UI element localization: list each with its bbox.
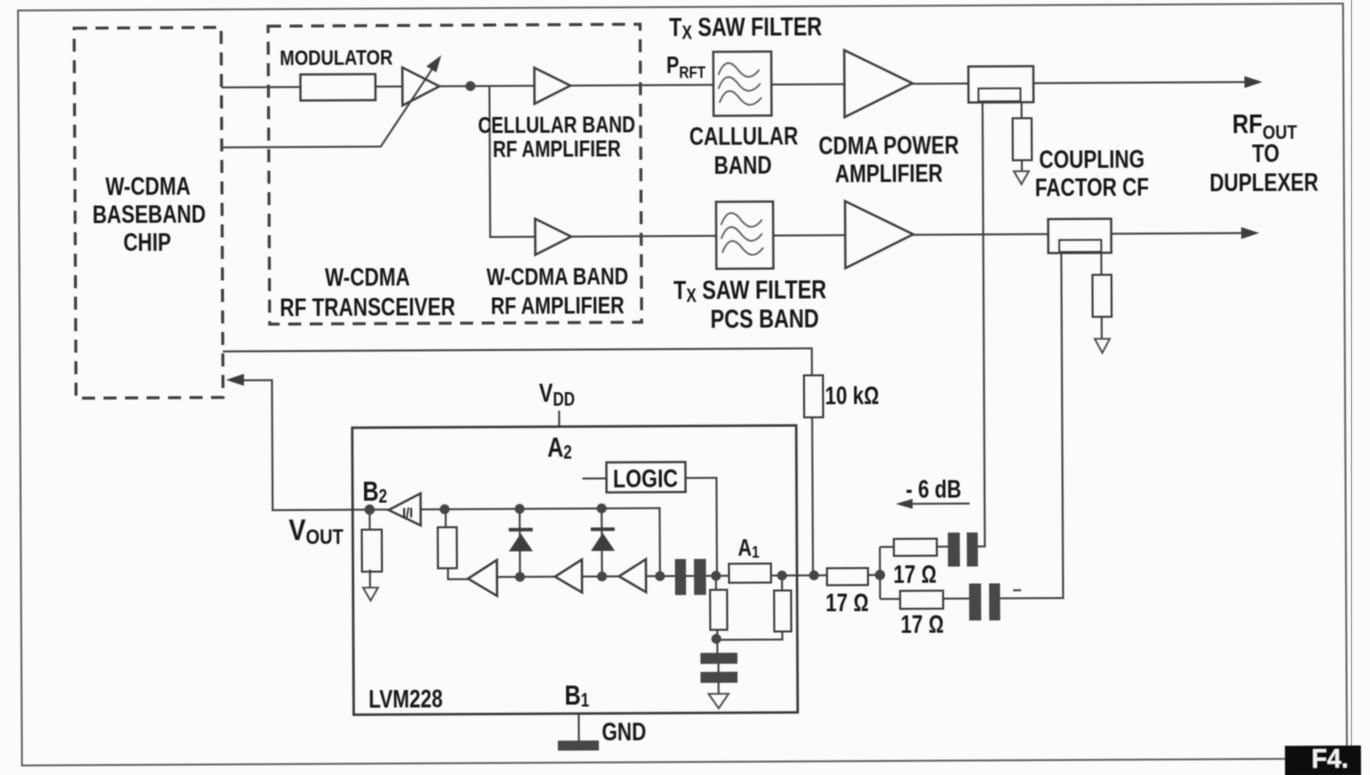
svg-text:I/I: I/I bbox=[402, 505, 413, 521]
svg-text:W-CDMA: W-CDMA bbox=[105, 173, 190, 201]
svg-text:CALLULAR: CALLULAR bbox=[689, 122, 798, 150]
svg-text:CDMA POWER: CDMA POWER bbox=[819, 131, 959, 159]
svg-text:CELLULAR BAND: CELLULAR BAND bbox=[478, 112, 635, 138]
svg-text:W-CDMA: W-CDMA bbox=[325, 263, 410, 291]
svg-text:- 6 dB: - 6 dB bbox=[906, 475, 962, 503]
svg-text:CHIP: CHIP bbox=[123, 229, 171, 257]
svg-text:RF AMPLIFIER: RF AMPLIFIER bbox=[491, 291, 625, 319]
svg-text:LVM228: LVM228 bbox=[369, 685, 443, 713]
svg-text:LOGIC: LOGIC bbox=[613, 464, 678, 493]
svg-text:BASEBAND: BASEBAND bbox=[92, 200, 205, 228]
svg-text:TX SAW FILTER: TX SAW FILTER bbox=[669, 12, 822, 43]
svg-text:BAND: BAND bbox=[714, 151, 772, 179]
svg-text:17 Ω: 17 Ω bbox=[893, 561, 936, 589]
svg-text:FACTOR CF: FACTOR CF bbox=[1035, 173, 1149, 201]
svg-text:W-CDMA BAND: W-CDMA BAND bbox=[486, 262, 628, 290]
svg-text:DUPLEXER: DUPLEXER bbox=[1209, 169, 1318, 197]
svg-text:PCS BAND: PCS BAND bbox=[710, 304, 819, 333]
svg-text:MODULATOR: MODULATOR bbox=[280, 46, 393, 70]
svg-text:AMPLIFIER: AMPLIFIER bbox=[835, 160, 943, 188]
svg-text:RF TRANSCEIVER: RF TRANSCEIVER bbox=[280, 293, 456, 322]
svg-text:17 Ω: 17 Ω bbox=[825, 589, 868, 617]
svg-text:COUPLING: COUPLING bbox=[1039, 146, 1145, 174]
svg-text:TO: TO bbox=[1252, 140, 1280, 168]
svg-text:GND: GND bbox=[602, 718, 647, 746]
svg-text:RF AMPLIFIER: RF AMPLIFIER bbox=[493, 136, 621, 162]
svg-text:F4.: F4. bbox=[1311, 743, 1348, 774]
svg-text:10 kΩ: 10 kΩ bbox=[825, 382, 879, 410]
svg-text:17 Ω: 17 Ω bbox=[901, 611, 944, 639]
svg-text:TX SAW FILTER: TX SAW FILTER bbox=[673, 275, 826, 306]
